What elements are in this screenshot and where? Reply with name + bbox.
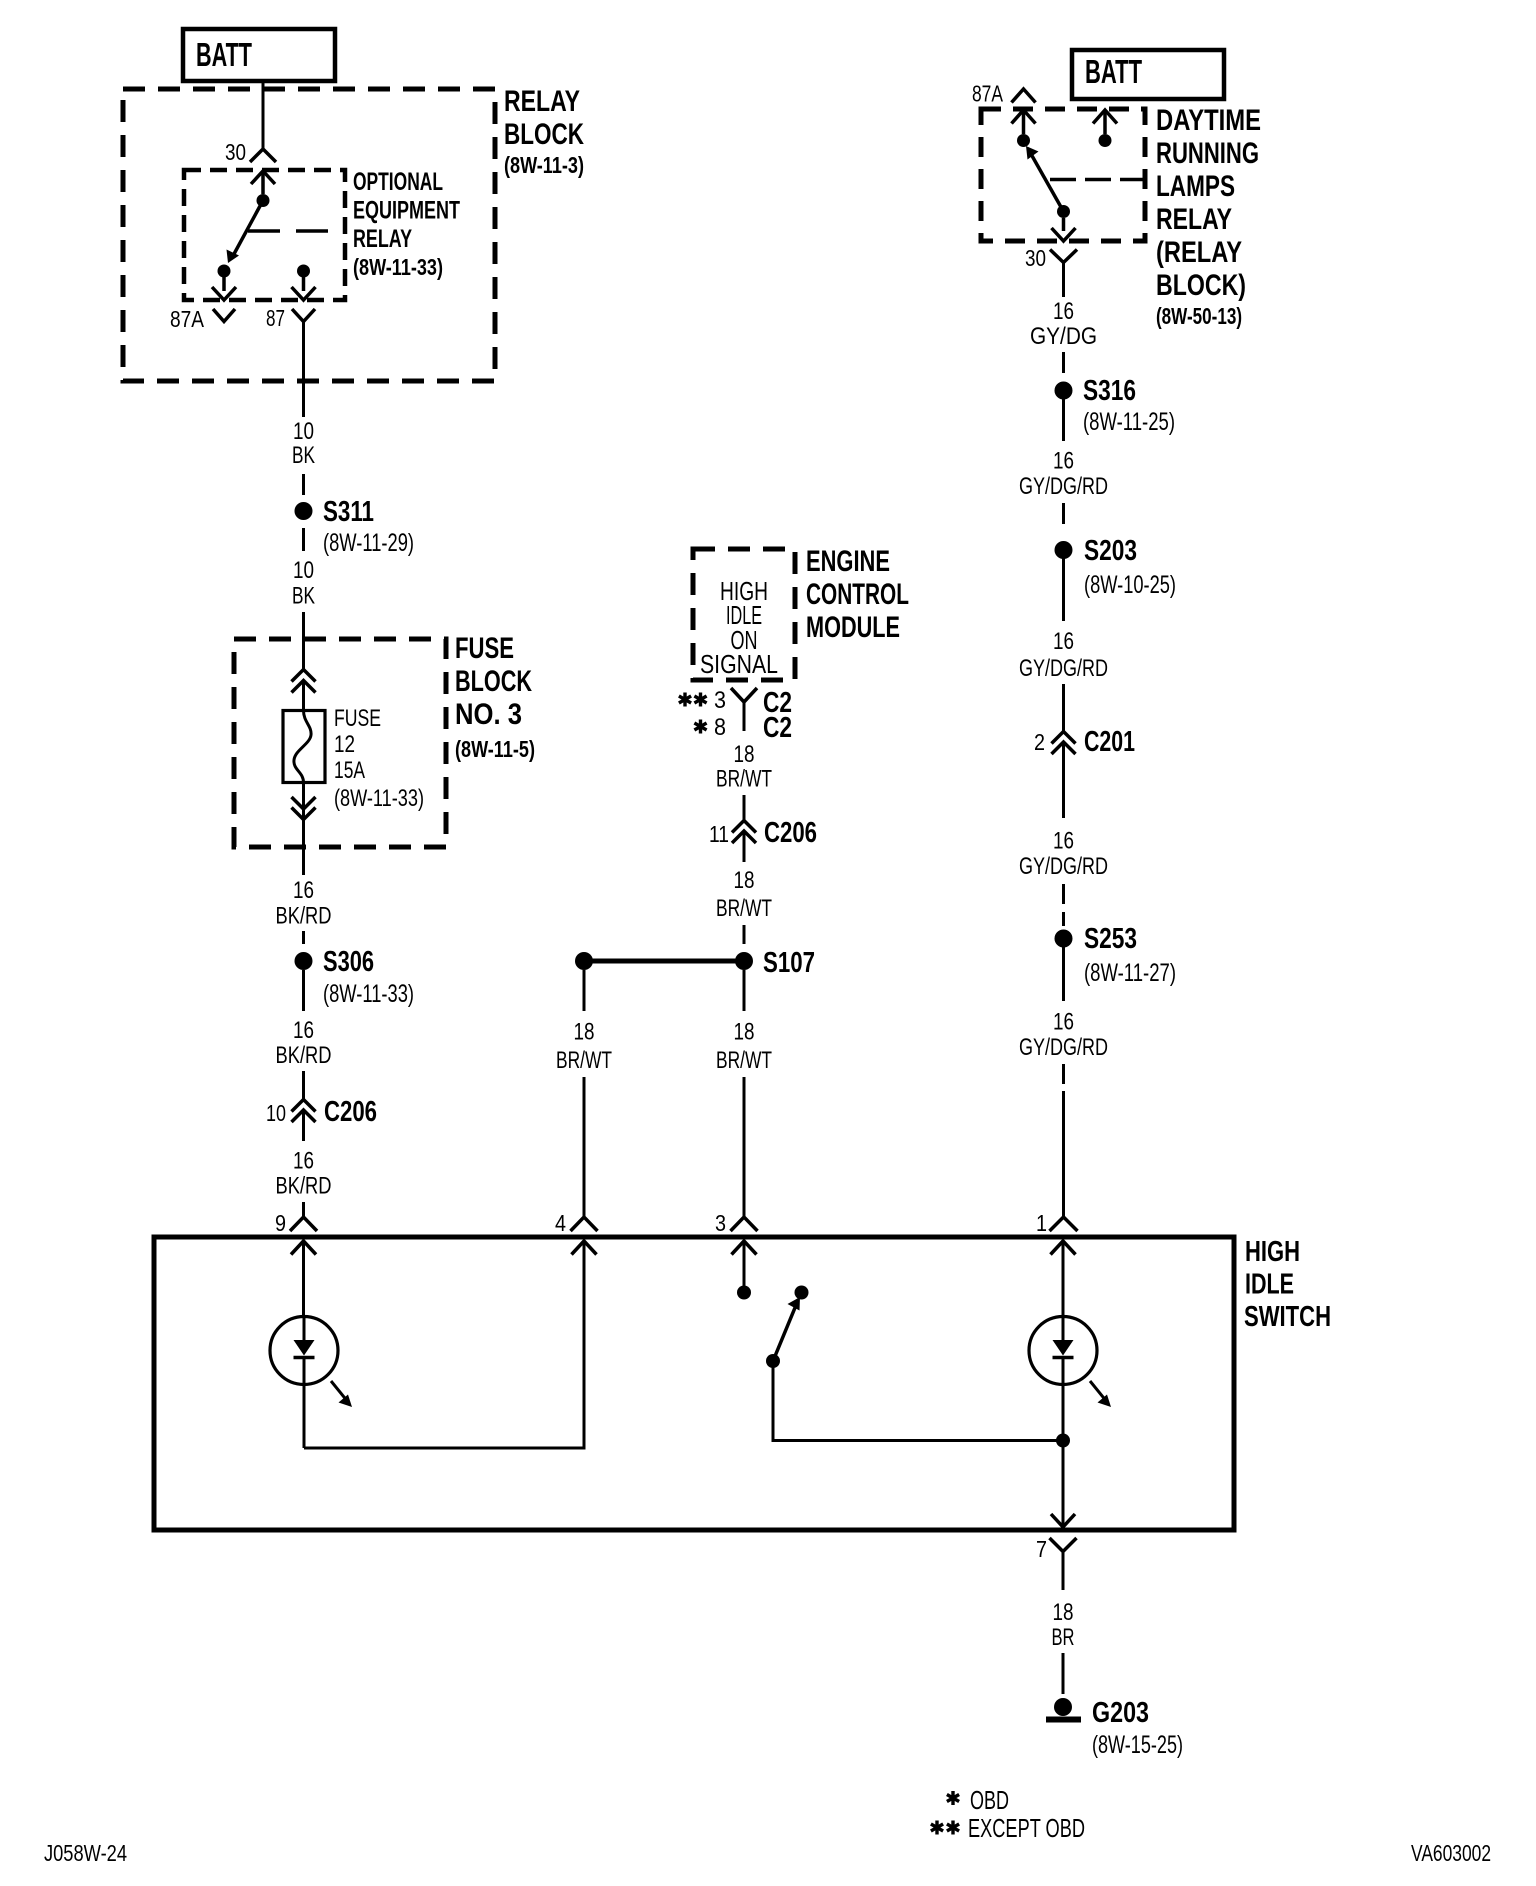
svg-text:LAMPS: LAMPS [1156, 170, 1235, 203]
svg-text:16: 16 [1053, 628, 1074, 655]
svg-text:FUSE: FUSE [455, 632, 514, 665]
svg-text:BK: BK [292, 583, 315, 610]
svg-text:2: 2 [1034, 729, 1045, 755]
svg-text:BR/WT: BR/WT [556, 1047, 612, 1074]
svg-text:DAYTIME: DAYTIME [1156, 104, 1261, 137]
svg-text:BK/RD: BK/RD [276, 903, 332, 930]
svg-text:S203: S203 [1084, 535, 1137, 567]
svg-text:BLOCK: BLOCK [455, 665, 532, 698]
svg-text:10: 10 [266, 1100, 286, 1126]
svg-text:FUSE: FUSE [334, 705, 381, 732]
svg-text:87A: 87A [170, 306, 205, 332]
svg-text:1: 1 [1036, 1210, 1047, 1236]
svg-text:VA603002: VA603002 [1411, 1840, 1491, 1866]
svg-text:BLOCK: BLOCK [504, 118, 584, 151]
svg-text:GY/DG/RD: GY/DG/RD [1019, 853, 1108, 880]
svg-text:ENGINE: ENGINE [806, 545, 890, 578]
svg-text:GY/DG/RD: GY/DG/RD [1019, 1034, 1108, 1061]
svg-text:(8W-11-25): (8W-11-25) [1083, 408, 1175, 436]
svg-text:(8W-10-25): (8W-10-25) [1084, 571, 1176, 599]
svg-text:S253: S253 [1084, 923, 1137, 955]
svg-text:(8W-11-29): (8W-11-29) [323, 529, 414, 557]
svg-text:S316: S316 [1083, 375, 1136, 407]
svg-text:18: 18 [574, 1019, 595, 1046]
svg-text:BR/WT: BR/WT [716, 1047, 772, 1074]
svg-text:RELAY: RELAY [353, 225, 412, 253]
svg-text:BATT: BATT [196, 36, 252, 73]
svg-text:12: 12 [334, 731, 355, 758]
svg-text:16: 16 [293, 1148, 314, 1175]
svg-text:16: 16 [1053, 298, 1074, 325]
svg-text:(8W-11-5): (8W-11-5) [455, 736, 535, 762]
svg-text:BR/WT: BR/WT [716, 895, 772, 922]
svg-text:SWITCH: SWITCH [1244, 1301, 1331, 1333]
svg-text:EXCEPT OBD: EXCEPT OBD [968, 1813, 1085, 1843]
svg-text:(8W-11-33): (8W-11-33) [353, 254, 443, 280]
svg-text:S311: S311 [323, 496, 374, 528]
svg-text:15A: 15A [334, 757, 365, 784]
svg-text:7: 7 [1036, 1536, 1047, 1562]
svg-text:S306: S306 [323, 946, 374, 978]
svg-text:11: 11 [709, 821, 729, 847]
svg-text:GY/DG/RD: GY/DG/RD [1019, 473, 1108, 500]
svg-text:10: 10 [293, 557, 314, 584]
svg-text:16: 16 [1053, 448, 1074, 475]
svg-text:16: 16 [1053, 1009, 1074, 1036]
svg-text:C206: C206 [324, 1096, 377, 1128]
svg-text:3: 3 [714, 687, 726, 714]
svg-text:GY/DG/RD: GY/DG/RD [1019, 655, 1108, 682]
svg-text:(8W-15-25): (8W-15-25) [1092, 1731, 1183, 1759]
svg-text:BK/RD: BK/RD [276, 1173, 332, 1200]
svg-text:OPTIONAL: OPTIONAL [353, 168, 443, 196]
svg-text:18: 18 [1053, 1599, 1074, 1626]
svg-text:EQUIPMENT: EQUIPMENT [353, 197, 460, 225]
svg-text:4: 4 [555, 1210, 566, 1236]
svg-text:BK: BK [292, 442, 315, 469]
svg-text:(8W-11-33): (8W-11-33) [323, 980, 414, 1008]
svg-text:(8W-50-13): (8W-50-13) [1156, 303, 1242, 329]
svg-text:J058W-24: J058W-24 [44, 1840, 127, 1866]
svg-text:BR/WT: BR/WT [716, 766, 772, 793]
svg-text:C2: C2 [763, 712, 792, 744]
svg-text:GY/DG: GY/DG [1030, 323, 1097, 350]
svg-text:G203: G203 [1092, 1697, 1149, 1729]
svg-text:16: 16 [293, 877, 314, 904]
svg-text:BATT: BATT [1085, 53, 1142, 90]
svg-text:8: 8 [714, 714, 726, 741]
svg-text:3: 3 [715, 1210, 726, 1236]
svg-text:16: 16 [1053, 828, 1074, 855]
svg-text:C201: C201 [1084, 726, 1135, 758]
svg-text:18: 18 [734, 741, 755, 768]
svg-text:C206: C206 [764, 817, 817, 849]
svg-text:30: 30 [1025, 245, 1046, 271]
svg-text:SIGNAL: SIGNAL [700, 649, 778, 679]
svg-text:OBD: OBD [970, 1785, 1009, 1815]
svg-text:IDLE: IDLE [1245, 1269, 1294, 1301]
svg-text:9: 9 [275, 1210, 286, 1236]
svg-text:HIGH: HIGH [1245, 1236, 1300, 1268]
svg-text:16: 16 [293, 1017, 314, 1044]
svg-text:RUNNING: RUNNING [1156, 137, 1259, 170]
svg-text:87A: 87A [972, 81, 1003, 107]
svg-text:CONTROL: CONTROL [806, 578, 909, 611]
svg-text:(RELAY: (RELAY [1156, 236, 1242, 269]
svg-text:NO. 3: NO. 3 [455, 698, 522, 731]
svg-text:BK/RD: BK/RD [276, 1042, 332, 1069]
svg-text:MODULE: MODULE [806, 611, 900, 644]
svg-text:30: 30 [225, 139, 246, 165]
svg-text:10: 10 [293, 418, 314, 445]
svg-text:(8W-11-27): (8W-11-27) [1084, 959, 1176, 987]
svg-text:RELAY: RELAY [1156, 203, 1232, 236]
svg-text:BLOCK): BLOCK) [1156, 269, 1246, 302]
svg-text:S107: S107 [763, 947, 815, 979]
svg-text:18: 18 [734, 1019, 755, 1046]
svg-text:18: 18 [734, 867, 755, 894]
svg-text:RELAY: RELAY [504, 85, 580, 118]
svg-text:(8W-11-33): (8W-11-33) [334, 785, 424, 812]
svg-text:87: 87 [266, 305, 285, 331]
svg-text:(8W-11-3): (8W-11-3) [504, 152, 584, 178]
svg-text:BR: BR [1052, 1624, 1075, 1651]
